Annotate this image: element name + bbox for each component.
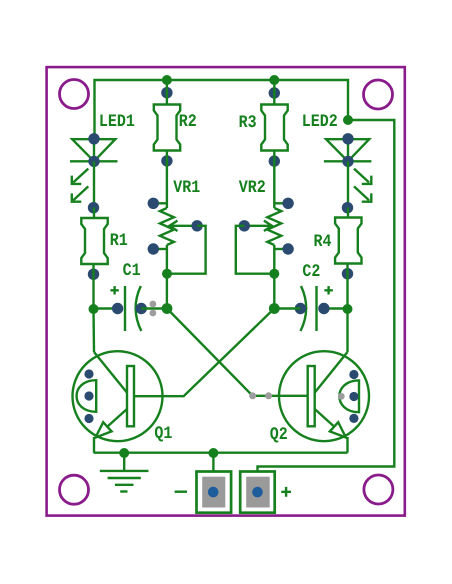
pad LED1 anode [88, 133, 99, 144]
board outline (purple frame) [47, 67, 405, 515]
C1 plus mark [110, 286, 118, 294]
pad C1 plus [112, 303, 123, 314]
LED2 light arrow upper [354, 169, 371, 184]
node rail-battery minus [208, 448, 218, 458]
wire battery minus stub [212, 453, 214, 473]
resistor R2 [154, 105, 180, 151]
mounting hole top-left [60, 80, 89, 109]
wire cross-couple C2 node to Q1 base [134, 309, 274, 397]
trimmer VR1 [153, 203, 197, 249]
wire R1 bottom to node [92, 264, 94, 309]
pad LED2 cathode [342, 156, 353, 167]
ground symbol [100, 471, 149, 492]
node C1-VR1-cross [162, 303, 173, 314]
plus label [281, 487, 291, 497]
node VR2-C2 [269, 269, 279, 279]
resistor R3 [261, 105, 287, 151]
svg-text:Q1: Q1 [154, 424, 172, 444]
wire VR1 down to C1 node [166, 245, 168, 309]
node rail-R3 [269, 75, 279, 85]
wire top positive rail [95, 80, 349, 139]
node R1-C1-Q1 [89, 304, 99, 314]
trimmer VR2 [244, 203, 288, 249]
node LED2 top [343, 115, 353, 125]
Q2 footprint outline [339, 380, 359, 412]
pad VR2 wiper [239, 220, 250, 231]
svg-text:LED2: LED2 [302, 112, 338, 132]
via pads near C1 [150, 301, 157, 308]
transistor Q1 [73, 309, 163, 453]
node rail-R2 [162, 75, 172, 85]
mounting hole bottom-left [60, 475, 89, 504]
pad VR2 top [282, 198, 293, 209]
wire R2 top stub [166, 80, 168, 105]
wire LED2 node to right edge [258, 120, 395, 473]
Q2 footprint via [338, 393, 345, 400]
wire VR2 wiper loop [236, 226, 274, 274]
svg-text:R2: R2 [179, 112, 197, 132]
wire R3 top stub [273, 80, 275, 105]
svg-text:R4: R4 [314, 232, 332, 252]
capacitor C2 [301, 286, 317, 331]
C2 plus mark [324, 286, 332, 294]
pad C2 minus [295, 303, 306, 314]
mounting hole top-right [364, 80, 393, 109]
wire VR1 wiper loop [167, 226, 206, 274]
pad R3 bottom [269, 155, 280, 166]
LED1 light arrow upper [72, 169, 89, 184]
transistor Q2 [279, 309, 369, 453]
wire R1 node to C1 [94, 307, 120, 309]
pad R3 top [269, 87, 280, 98]
LED1 light arrow lower [72, 186, 89, 201]
pad VR1 bottom [148, 243, 159, 254]
resistor R1 [81, 218, 107, 264]
pad R2 top [161, 87, 172, 98]
pad LED1 cathode [88, 156, 99, 167]
wire ground stub [123, 453, 125, 471]
node C2-VR2-cross [269, 303, 280, 314]
pad C1 minus [136, 303, 147, 314]
LED D2 symbol [324, 139, 372, 161]
node rail-ground [119, 448, 129, 458]
pad R1 top [88, 202, 99, 213]
minus label [175, 491, 187, 493]
pad VR1 wiper [191, 220, 202, 231]
node R4-C2-Q2 [343, 304, 353, 314]
svg-text:R1: R1 [110, 231, 128, 251]
wire ground rail [94, 452, 348, 454]
Q1 footprint pads [84, 369, 93, 378]
wire R4 top stub [347, 208, 349, 218]
svg-text:VR2: VR2 [239, 178, 266, 198]
svg-text:R3: R3 [239, 113, 257, 133]
terminal block plus [240, 472, 275, 513]
svg-text:Q2: Q2 [270, 425, 288, 445]
pad C2 plus [318, 303, 329, 314]
wire LED1 to R1 [93, 161, 95, 207]
pad R1 bottom [88, 269, 99, 280]
svg-text:LED1: LED1 [99, 112, 135, 132]
wire R3 bottom to VR2 [273, 151, 275, 209]
pad LED2 anode [342, 133, 353, 144]
wire LED2 to R4 [347, 161, 349, 207]
node VR1-C1 [162, 269, 172, 279]
resistor R4 [335, 218, 361, 264]
wire R4 bottom to node [346, 264, 348, 310]
Q2 footprint pads [349, 370, 358, 379]
pad R4 top [342, 202, 353, 213]
via pads on Q2 base wire [249, 392, 256, 399]
pad R2 bottom [161, 155, 172, 166]
capacitor C1 [125, 286, 141, 331]
mounting hole bottom-right [364, 475, 393, 504]
wire VR2 down to C2 node [273, 245, 275, 309]
svg-text:C1: C1 [123, 261, 141, 281]
svg-text:VR1: VR1 [173, 178, 200, 198]
LED2 light arrow lower [354, 186, 371, 201]
terminal block minus [197, 472, 232, 513]
pad R4 bottom [342, 268, 353, 279]
wire R1 top stub [93, 208, 95, 219]
wire C1 to VR1 node [141, 307, 167, 309]
pad VR2 bottom [282, 243, 293, 254]
wire R2 bottom to VR1 [166, 151, 168, 209]
LED D1 symbol [70, 139, 118, 161]
wire C2 to VR2 node [274, 307, 300, 309]
wire R4 node to C2 [323, 307, 348, 309]
pad VR1 top [148, 198, 159, 209]
svg-text:C2: C2 [302, 262, 320, 282]
wire cross-couple C1 node to Q2 base [167, 309, 308, 396]
Q1 footprint outline [77, 380, 97, 412]
